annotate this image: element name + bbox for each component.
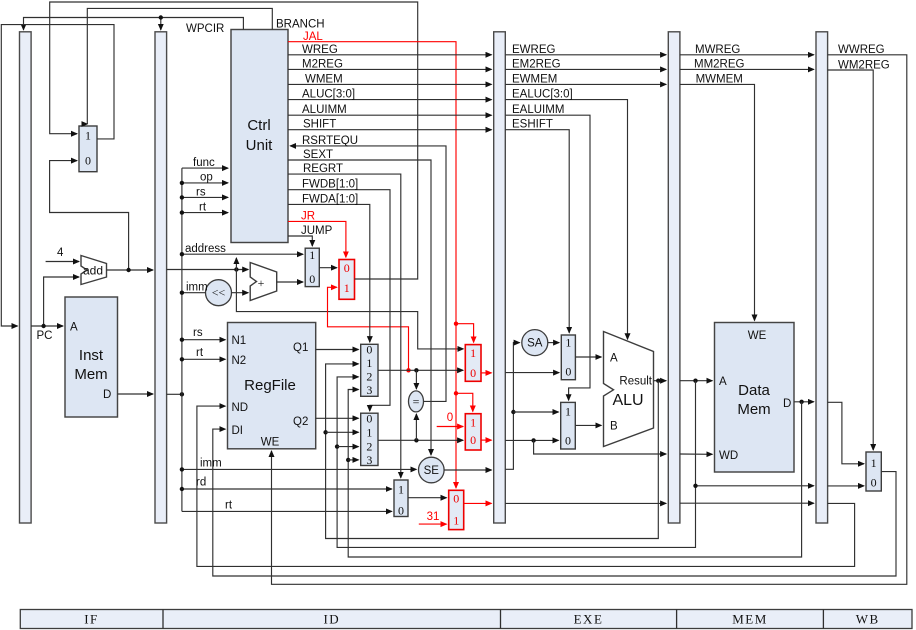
- wire: EXE result forward loop to muxA/muxB input 1: [326, 364, 659, 539]
- ALU U_alu: [604, 332, 654, 447]
- sign extender circle SE: [419, 457, 445, 483]
- wire: destination number EXE to MEM bar: [505, 502, 666, 504]
- svg-text:1: 1: [565, 405, 571, 419]
- svg-text:MM2REG: MM2REG: [694, 59, 745, 71]
- control unit U_ctrl: [231, 30, 288, 243]
- svg-text:1: 1: [309, 248, 315, 262]
- svg-text:M2REG: M2REG: [302, 59, 343, 71]
- wire: JUMP select to M3: [288, 236, 312, 246]
- wire: MM2REG to WB bar: [680, 68, 814, 70]
- svg-text:SA: SA: [527, 338, 543, 350]
- wire: M2REG ctrl to EXE bar: [288, 68, 492, 70]
- svg-text:EWREG: EWREG: [512, 44, 556, 56]
- shift amount circle SA: [522, 330, 548, 356]
- jump mux M3: [305, 248, 319, 286]
- PC source mux M1: [79, 126, 97, 172]
- wire: destination number MEM to WB bar: [680, 502, 814, 504]
- equality comparator =: [409, 391, 424, 412]
- svg-text:0: 0: [565, 433, 571, 447]
- svg-text:1: 1: [871, 456, 877, 470]
- wire: PC+4 in ID to branch adder / jal link: [167, 269, 249, 271]
- svg-text:0: 0: [85, 154, 91, 168]
- wire: EM2REG to MEM bar: [505, 68, 666, 70]
- register file RegFile: [228, 323, 316, 449]
- svg-text:0: 0: [470, 433, 476, 447]
- wire: WB mem data to M10 input 1: [828, 402, 864, 464]
- wire: add output to IF/ID bar: [107, 269, 154, 271]
- wire: EXE forward-A value to muxC input 0: [505, 372, 559, 374]
- svg-text:FWDB[1:0]: FWDB[1:0]: [302, 179, 358, 191]
- wire: branch adder output to M3 input 0: [277, 281, 303, 283]
- forward B mux M_B (4-input): [361, 413, 378, 465]
- svg-text:PC: PC: [37, 330, 53, 342]
- wb result mux M10: [866, 452, 881, 491]
- wire: MEM ALU value to Data Mem A: [680, 380, 712, 382]
- wire: FWDA to muxA select: [288, 204, 370, 342]
- shift-left-2 circle <<: [206, 280, 232, 306]
- svg-text:rt: rt: [199, 202, 207, 214]
- svg-text:1: 1: [344, 281, 350, 295]
- wire: RegFile Q2 to muxB input 0: [316, 417, 359, 419]
- constant 4 into add: [46, 261, 79, 263]
- branch target adder +: [250, 263, 277, 301]
- svg-text:rt: rt: [225, 500, 233, 512]
- svg-text:ALUIMM: ALUIMM: [302, 104, 347, 116]
- svg-text:Q2: Q2: [293, 416, 308, 428]
- wire: rt field to ctrl: [182, 212, 228, 214]
- wire: rt to RegFile N2: [182, 358, 225, 360]
- wire: PC register output to Inst Mem A: [31, 325, 63, 327]
- wire: EALUIMM to muxD select: [505, 115, 590, 400]
- pipeline register bar b5: [816, 32, 828, 523]
- ALU B source mux M_D: [561, 402, 576, 449]
- jal 0 mux M6 (red): [465, 414, 481, 450]
- svg-text:3: 3: [366, 453, 372, 467]
- svg-text:2: 2: [366, 440, 372, 454]
- svg-text:WB: WB: [856, 612, 880, 627]
- pipeline register bar b2: [155, 32, 167, 523]
- wire: M3 output to M4 input 0: [319, 267, 337, 269]
- wire: rs field to ctrl: [182, 196, 228, 198]
- wire: WM2REG to M10 select: [828, 70, 874, 450]
- svg-text:1: 1: [565, 336, 571, 350]
- wire: shifter output to branch adder: [232, 292, 249, 294]
- data memory Data Mem: [715, 323, 795, 473]
- wire: M9 output to EXE bar (red): [464, 502, 492, 504]
- svg-text:rs: rs: [196, 187, 206, 199]
- wire: new PC value to M1 input 1: [50, 2, 418, 279]
- wire: Inst Mem D to IF/ID bar: [118, 393, 154, 395]
- svg-text:0: 0: [309, 272, 315, 286]
- svg-text:EWMEM: EWMEM: [512, 74, 557, 86]
- svg-text:JUMP: JUMP: [301, 225, 333, 237]
- svg-text:JAL: JAL: [303, 31, 323, 43]
- wire: M6 output to EXE bar (red): [481, 439, 492, 441]
- jr mux M4 (red): [339, 260, 355, 300]
- svg-text:B: B: [610, 421, 618, 433]
- wire: MWREG to WB bar: [680, 54, 814, 56]
- svg-text:EXE: EXE: [574, 612, 604, 627]
- wire: PC to add: [44, 277, 79, 326]
- wire: PC+4 back to M1 input 0: [50, 161, 129, 270]
- wire: SHIFT ctrl to EXE bar: [288, 129, 492, 131]
- svg-text:Mem: Mem: [737, 401, 770, 418]
- wire: RegFile Q1 to muxA input 0: [316, 349, 359, 351]
- wire: MEM value forward loop to muxA/muxB input 2: [337, 377, 695, 548]
- wire: muxC output to ALU A: [575, 356, 601, 358]
- svg-text:RSRTEQU: RSRTEQU: [302, 135, 358, 147]
- instruction memory Inst Mem: [65, 297, 118, 417]
- wire: EXE forward-B value to muxD input 0 and store data: [505, 439, 558, 441]
- forward A mux M_A (4-input): [361, 344, 378, 396]
- svg-text:RegFile: RegFile: [244, 377, 296, 394]
- svg-text:1: 1: [366, 425, 372, 439]
- svg-text:ALUC[3:0]: ALUC[3:0]: [302, 89, 355, 101]
- svg-text:func: func: [193, 157, 215, 169]
- wire: PC+4 up-join to jump address: [235, 258, 237, 270]
- svg-text:ND: ND: [232, 402, 249, 414]
- wire: BRANCH from ctrl top to M1 select: [87, 8, 272, 124]
- pipeline register bar b1: [20, 32, 32, 523]
- wire: WB ALU value to M10 input 0: [828, 485, 864, 487]
- wire: EWREG to MEM bar: [505, 54, 666, 56]
- svg-text:N1: N1: [232, 335, 247, 347]
- svg-text:IF: IF: [84, 612, 99, 627]
- svg-text:Unit: Unit: [246, 137, 274, 154]
- wire: rd field to M8 input 1: [182, 488, 392, 490]
- svg-text:0: 0: [470, 366, 476, 380]
- wire: store data MEM to Data Mem WD: [680, 453, 712, 455]
- svg-text:A: A: [70, 322, 78, 334]
- wire: func field to ctrl: [182, 167, 228, 169]
- svg-text:Mem: Mem: [74, 366, 107, 383]
- svg-text:EALUIMM: EALUIMM: [512, 104, 564, 116]
- svg-text:MEM: MEM: [732, 612, 768, 627]
- svg-text:JR: JR: [301, 211, 315, 223]
- svg-text:N2: N2: [232, 355, 247, 367]
- wire: WREG ctrl to EXE bar: [288, 54, 492, 56]
- svg-text:ID: ID: [323, 612, 340, 627]
- wire: FWDB to muxB select: [288, 190, 390, 411]
- svg-text:0: 0: [366, 343, 372, 357]
- ALU A source mux M_C: [561, 335, 575, 380]
- svg-text:EALUC[3:0]: EALUC[3:0]: [512, 89, 573, 101]
- wire: RSRTEQU from comparator to ctrl: [290, 146, 446, 402]
- svg-text:SEXT: SEXT: [303, 149, 333, 161]
- PC-add-4 adder add: [81, 256, 107, 285]
- pipeline register bar b4: [668, 32, 680, 523]
- svg-text:SE: SE: [424, 465, 440, 477]
- wire: JAL branch to M5 select (red): [456, 324, 474, 343]
- svg-text:D: D: [783, 398, 791, 410]
- svg-text:op: op: [200, 172, 213, 184]
- constant 0 to M6 input 1 (red): [437, 426, 463, 428]
- wire: jr target value tap to M4 input 1 (red): [328, 287, 409, 370]
- wire: M8 output to M9 input 0: [408, 497, 447, 499]
- wire: MEM ALU value to WB bar: [696, 485, 814, 487]
- svg-text:0: 0: [366, 411, 372, 425]
- wire: ALUC ctrl to EXE bar: [288, 99, 492, 101]
- wire: address field to jump mux M3: [182, 253, 303, 255]
- svg-text:0: 0: [344, 261, 350, 275]
- wire: ALU result to MEM bar: [654, 380, 667, 382]
- wire: muxD output to ALU B: [575, 424, 601, 426]
- wire: REGRT to M8 select: [288, 174, 401, 478]
- svg-text:D: D: [103, 389, 111, 401]
- svg-text:0: 0: [398, 503, 404, 517]
- svg-text:Inst: Inst: [79, 347, 104, 364]
- wire: muxA output to M5 input 0: [378, 369, 463, 371]
- svg-text:+: +: [258, 276, 265, 290]
- wire: EXE imm to SA and muxD input 1: [505, 343, 519, 470]
- svg-text:REGRT: REGRT: [303, 163, 343, 175]
- svg-text:1: 1: [366, 356, 372, 370]
- wire: op field to ctrl: [182, 182, 228, 184]
- svg-text:WD: WD: [719, 450, 738, 462]
- svg-text:ALU: ALU: [612, 392, 643, 409]
- svg-text:31: 31: [427, 511, 440, 523]
- pipeline register bar b3: [494, 32, 506, 523]
- svg-text:BRANCH: BRANCH: [276, 19, 325, 31]
- svg-text:Q1: Q1: [293, 342, 308, 354]
- constant 31 to M9 input 1 (red): [419, 523, 447, 525]
- svg-text:1: 1: [85, 129, 91, 143]
- svg-text:EM2REG: EM2REG: [512, 59, 561, 71]
- svg-text:0: 0: [565, 364, 571, 378]
- svg-text:SHIFT: SHIFT: [303, 119, 336, 131]
- wire: JR select to M4 (red): [288, 221, 346, 257]
- svg-text:rd: rd: [196, 477, 206, 489]
- svg-text:MWREG: MWREG: [695, 44, 740, 56]
- wire: muxB out up to comparator bottom: [415, 414, 417, 440]
- svg-text:A: A: [610, 353, 618, 365]
- svg-text:DI: DI: [232, 425, 244, 437]
- svg-text:<<: <<: [212, 286, 226, 300]
- svg-text:1: 1: [470, 346, 476, 360]
- wire: rs to RegFile N1: [182, 339, 225, 341]
- svg-text:WREG: WREG: [302, 44, 338, 56]
- wire: imm field to shifter: [182, 292, 206, 294]
- wire: Data Mem D to WB bar: [794, 401, 814, 403]
- wire: MWMEM to Data Mem WE: [680, 84, 755, 320]
- svg-text:rt: rt: [196, 347, 204, 359]
- svg-text:1: 1: [470, 416, 476, 430]
- wire: ALUIMM ctrl to EXE bar: [288, 114, 492, 116]
- wire: M10 output feedback to RegFile DI: [213, 429, 896, 576]
- wire: muxA out down to comparator top: [415, 370, 417, 389]
- wire: WMEM ctrl to EXE bar: [288, 83, 492, 85]
- regrt destination mux M8: [394, 480, 408, 517]
- svg-text:WE: WE: [261, 437, 280, 449]
- svg-text:WWREG: WWREG: [838, 44, 885, 56]
- wire: WPCIR from ctrl top to PC and IF/ID write enables: [24, 18, 244, 30]
- wire: M1 output loop back to PC register: [1, 25, 114, 326]
- wire: rt field to M8 input 0: [182, 510, 392, 512]
- svg-text:WE: WE: [748, 330, 767, 342]
- wire: PC+4 to M5 input 1 (link value): [236, 270, 463, 349]
- wire: WB destination number feedback to RegFile ND: [197, 406, 855, 566]
- svg-text:3: 3: [366, 383, 372, 397]
- wire: WWREG to RegFile WE (feedback): [272, 55, 907, 585]
- wire: SA output to muxC input 1: [548, 342, 559, 344]
- svg-text:WMEM: WMEM: [305, 74, 343, 86]
- jal PC+8 mux M5 (red): [465, 345, 481, 382]
- wire: muxB output to M6 input 0: [378, 439, 463, 441]
- svg-text:A: A: [719, 376, 727, 388]
- svg-text:0: 0: [871, 476, 877, 490]
- wire: JAL signal (red): [288, 42, 456, 488]
- svg-text:imm: imm: [200, 458, 222, 470]
- jal 31 mux M9 (red): [449, 490, 464, 529]
- wire: imm field to SE: [182, 468, 416, 470]
- svg-text:2: 2: [366, 370, 372, 384]
- svg-text:0: 0: [453, 492, 459, 506]
- svg-text:imm: imm: [186, 282, 208, 294]
- wire: ESHIFT to muxC select: [505, 130, 569, 333]
- svg-text:address: address: [185, 243, 226, 255]
- svg-text:MWMEM: MWMEM: [696, 74, 743, 86]
- wire: JAL branch to M6 select (red): [456, 393, 473, 411]
- wire: SEXT to SE select: [288, 160, 431, 455]
- wire: mem data forward loop to muxA/muxB input 3: [348, 390, 801, 558]
- svg-text:1: 1: [453, 514, 459, 528]
- svg-text:rs: rs: [193, 327, 203, 339]
- svg-text:1: 1: [398, 483, 404, 497]
- svg-text:0: 0: [447, 412, 453, 424]
- wire: instruction bus from IF/ID: [167, 393, 182, 395]
- wire: WPCIR branch to IF/ID bar: [160, 18, 162, 30]
- wire: M5 output to EXE bar (red): [481, 372, 492, 374]
- svg-text:ESHIFT: ESHIFT: [512, 119, 553, 131]
- svg-text:Result: Result: [619, 375, 652, 387]
- svg-text:FWDA[1:0]: FWDA[1:0]: [302, 194, 358, 206]
- svg-text:4: 4: [57, 247, 64, 259]
- svg-text:WPCIR: WPCIR: [186, 23, 224, 35]
- svg-text:=: =: [413, 394, 420, 408]
- svg-text:Data: Data: [738, 382, 770, 399]
- svg-text:add: add: [83, 264, 103, 278]
- wire: EWMEM to MEM bar: [505, 83, 666, 85]
- svg-text:WM2REG: WM2REG: [838, 60, 890, 72]
- wire: EALUC to ALU select: [505, 100, 627, 340]
- wire: SE output to EXE bar: [444, 469, 491, 471]
- stage label bar IF ID EXE MEM WB: [20, 610, 912, 629]
- svg-text:Ctrl: Ctrl: [247, 117, 270, 134]
